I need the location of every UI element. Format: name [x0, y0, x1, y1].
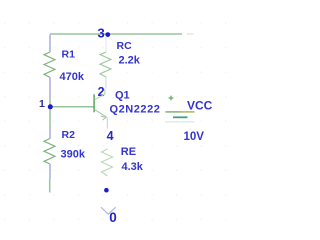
- svg-text:390k: 390k: [61, 149, 86, 161]
- svg-text:3: 3: [98, 26, 105, 41]
- resistor RC body: [100, 52, 111, 77]
- svg-text:4.3k: 4.3k: [122, 161, 144, 173]
- resistor R1 body: [44, 52, 55, 78]
- junction dot node 0: [104, 188, 109, 193]
- resistor R1 bottom pin: [49, 78, 51, 98]
- transistor Q1 collector diagonal: [95, 89, 105, 100]
- wire R2 to ground rail: [49, 179, 51, 193]
- resistor RC top pin: [105, 37, 107, 52]
- svg-text:R1: R1: [62, 49, 76, 61]
- resistor R1 top pin: [49, 35, 51, 53]
- vdc VCC faint lower plate: [165, 121, 195, 123]
- vdc VCC long plate: [166, 111, 181, 113]
- wire base (node 1 to Q1 base): [50, 106, 94, 108]
- resistor RC bottom pin: [105, 77, 107, 89]
- svg-text:0: 0: [109, 210, 117, 223]
- wire top rail node 3: [50, 33, 182, 35]
- vdc VCC short plate: [173, 116, 188, 118]
- ground symbol: [101, 207, 116, 214]
- resistor R2 body: [44, 139, 55, 165]
- transistor Q1 emitter diagonal with arrow: [95, 110, 107, 120]
- svg-text:4: 4: [107, 129, 114, 143]
- resistor R2 bottom pin: [49, 164, 51, 179]
- junction dot node 1: [48, 104, 53, 109]
- wire node 1 down to R2: [49, 107, 51, 127]
- wire R1 to node 1: [49, 97, 51, 107]
- svg-text:R2: R2: [62, 129, 76, 141]
- resistor RE body: [102, 149, 113, 176]
- transistor Q1 emitter pin: [106, 118, 108, 129]
- svg-text:2.2k: 2.2k: [119, 55, 141, 67]
- wire faint stub right of rail: [187, 33, 194, 35]
- svg-text:1: 1: [39, 98, 45, 110]
- svg-text:Q2N2222: Q2N2222: [110, 104, 161, 116]
- vdc VCC plus sign: [169, 96, 174, 101]
- svg-text:VCC: VCC: [187, 99, 213, 113]
- junction dot node 3: [105, 32, 110, 37]
- svg-text:470k: 470k: [60, 71, 85, 83]
- svg-text:RC: RC: [117, 40, 133, 52]
- svg-text:10V: 10V: [184, 131, 205, 143]
- svg-text:RE: RE: [121, 146, 136, 158]
- resistor R2 top pin: [49, 127, 51, 139]
- svg-text:Q1: Q1: [115, 90, 130, 102]
- transistor Q1 base bar: [93, 94, 95, 112]
